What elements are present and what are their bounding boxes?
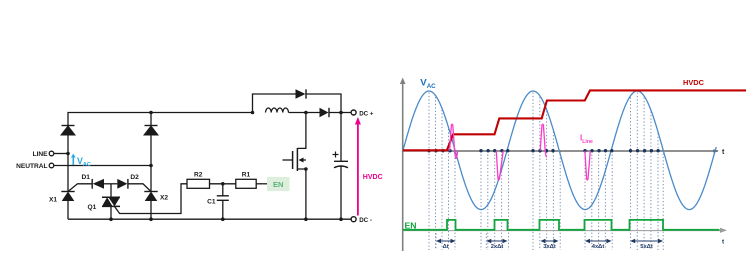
- svg-text:R1: R1: [242, 172, 251, 179]
- wire bypass branch right: [306, 94, 341, 113]
- t axis: [403, 150, 718, 152]
- wire node down to C1: [222, 184, 224, 196]
- svg-text:EN: EN: [273, 180, 283, 189]
- output capacitor plus sign: [333, 152, 339, 158]
- resistor R1: [236, 179, 256, 188]
- output cap bottom wire: [340, 167, 342, 220]
- resistor R2: [187, 179, 210, 188]
- diode D1: [92, 179, 104, 189]
- wire bottom rail: [68, 218, 351, 220]
- wire top rail: [68, 113, 253, 154]
- svg-text:C1: C1: [207, 199, 216, 206]
- wire Q1 gate to R2: [114, 184, 187, 214]
- junction dots: [66, 111, 343, 221]
- wire between D1 D2: [104, 183, 117, 185]
- svg-text:4xΔt: 4xΔt: [592, 244, 605, 250]
- wire R2 to node: [210, 183, 236, 185]
- wire left rail bottom: [67, 201, 69, 219]
- mosfet source wire: [297, 169, 306, 219]
- mosfet body-source junction: [304, 167, 308, 171]
- capacitor C1 plates: [217, 196, 229, 201]
- svg-text:X1: X1: [49, 197, 57, 204]
- diode D2: [117, 179, 128, 189]
- I line spike 1: [450, 124, 458, 158]
- output cap top wire: [340, 113, 342, 162]
- wire second rail middle: [150, 136, 152, 192]
- svg-text:D1: D1: [82, 174, 91, 181]
- diode bridge right top: [143, 125, 159, 135]
- diode output: [320, 108, 330, 117]
- svg-text:X2: X2: [160, 195, 168, 202]
- I line spike 3: [540, 124, 546, 157]
- thyristor X2: [144, 192, 157, 202]
- wire C1 to bottom rail: [222, 200, 224, 219]
- I line spike 4: [585, 151, 590, 180]
- svg-text:DC +: DC +: [359, 110, 374, 117]
- wire top rail right of inductor: [289, 112, 320, 114]
- svg-text:5xΔt: 5xΔt: [640, 244, 653, 250]
- wire second rail bottom: [150, 201, 152, 219]
- svg-text:NEUTRAL: NEUTRAL: [16, 163, 48, 170]
- svg-text:DC -: DC -: [359, 217, 372, 224]
- wire R1 to EN box: [256, 183, 267, 185]
- mosfet Q2: [293, 148, 298, 171]
- I line spike 2: [496, 151, 503, 180]
- wire NEUTRAL: [54, 165, 151, 167]
- thyristor X1: [61, 192, 74, 202]
- svg-text:HVDC: HVDC: [363, 174, 383, 181]
- wire left rail lower: [67, 154, 69, 192]
- wire diode to DC+: [329, 112, 351, 114]
- svg-text:LINE: LINE: [33, 151, 49, 158]
- output capacitor plates: [334, 161, 348, 168]
- svg-text:2xΔt: 2xΔt: [491, 244, 504, 250]
- wire D1D2 node down to Q1: [110, 184, 112, 197]
- svg-text:HVDC: HVDC: [683, 78, 705, 87]
- svg-text:Q1: Q1: [88, 204, 97, 211]
- svg-text:R2: R2: [194, 172, 203, 179]
- wire bypass branch: [253, 94, 296, 113]
- diode bridge left top: [60, 125, 76, 135]
- wire D1 D2 bridge: [68, 184, 92, 192]
- triac Q1: [102, 197, 120, 206]
- EN waveform: [403, 220, 720, 230]
- Vac arrow cyan: [71, 154, 76, 165]
- mosfet gate stub: [283, 159, 293, 161]
- EN box: [267, 177, 290, 191]
- dashed guide lines: [429, 93, 663, 251]
- svg-text:Δt: Δt: [443, 244, 449, 250]
- terminal DC-: [351, 217, 356, 222]
- svg-text:EN: EN: [405, 220, 417, 230]
- wire Q1 to bottom rail: [110, 206, 112, 219]
- wire second rail top: [150, 113, 152, 126]
- interval arrows: [441, 240, 452, 242]
- diode bypass top: [296, 89, 307, 98]
- axis dots: [427, 149, 660, 152]
- y axis: [400, 78, 406, 252]
- svg-text:D2: D2: [130, 174, 139, 181]
- sine wave Vac: [403, 91, 716, 210]
- mosfet body connection: [303, 159, 306, 161]
- wire D2 to X2: [128, 184, 151, 192]
- terminal LINE: [49, 151, 54, 156]
- HVDC arrow pink: [355, 117, 361, 216]
- wire LINE: [54, 153, 68, 155]
- terminal NEUTRAL: [49, 163, 54, 168]
- EN axis gray with arrow: [403, 230, 722, 232]
- svg-text:3xΔt: 3xΔt: [543, 244, 556, 250]
- HVDC staircase: [403, 90, 746, 150]
- inductor L: [266, 108, 289, 113]
- terminal DC+: [351, 110, 356, 115]
- mosfet drain wire: [297, 113, 306, 149]
